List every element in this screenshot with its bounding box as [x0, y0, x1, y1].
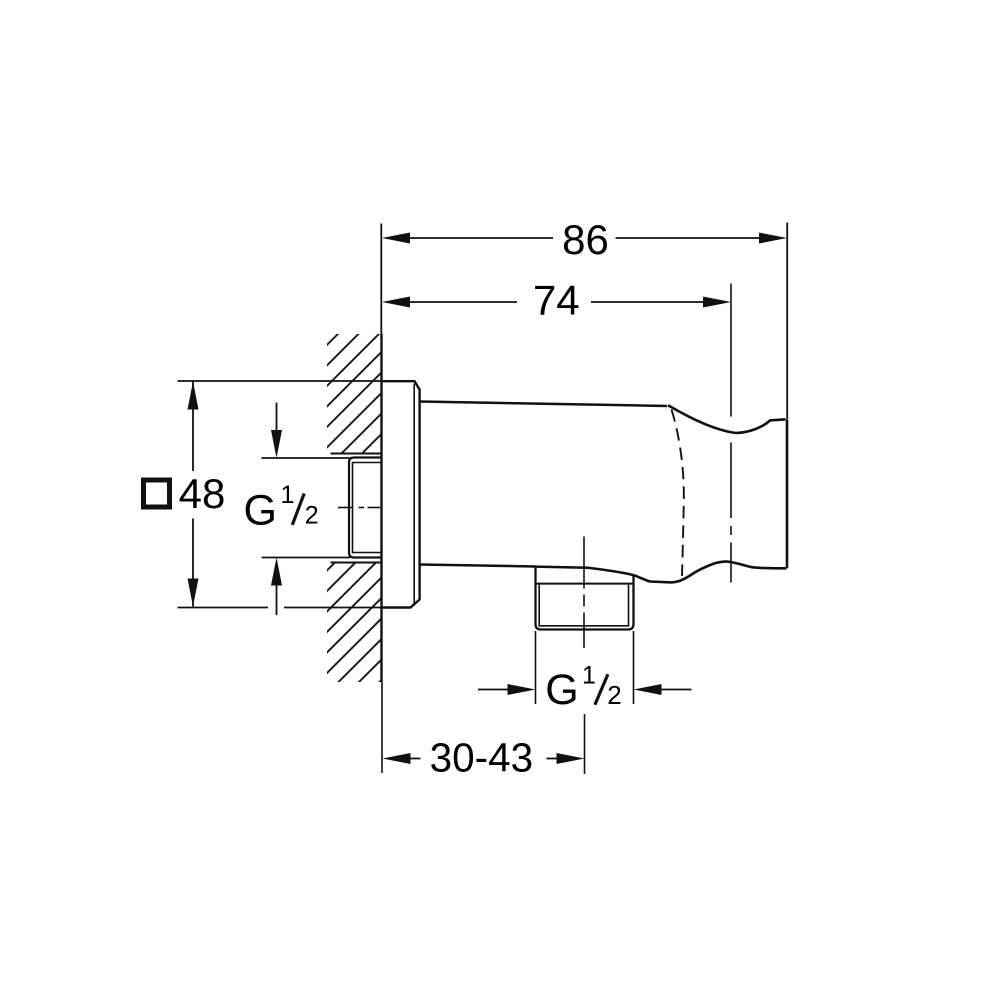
svg-text:1: 1	[281, 481, 295, 509]
svg-text:1: 1	[582, 662, 596, 690]
svg-text:48: 48	[179, 470, 226, 517]
svg-text:86: 86	[562, 216, 609, 263]
svg-text:74: 74	[533, 277, 580, 324]
svg-text:G: G	[244, 487, 277, 535]
svg-text:2: 2	[305, 502, 319, 530]
svg-text:2: 2	[607, 680, 621, 710]
svg-text:G: G	[545, 666, 578, 714]
svg-text:30-43: 30-43	[430, 735, 534, 781]
